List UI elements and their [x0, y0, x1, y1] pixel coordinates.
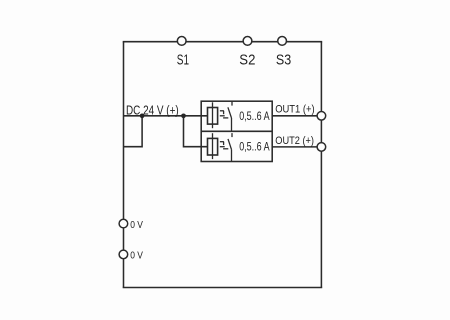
svg-text:OUT2 (+): OUT2 (+)	[275, 135, 314, 147]
svg-text:S2: S2	[239, 52, 255, 68]
wire OUT1 output	[272, 115, 317, 117]
wire bottom bus	[123, 287, 323, 289]
svg-text:0,5..6 A: 0,5..6 A	[239, 109, 270, 123]
wire jog from junction to left rail	[124, 116, 143, 147]
breaker module divider	[201, 130, 272, 132]
fuse F1 (channel 1)	[208, 102, 218, 128]
terminal OUT2 (+)	[317, 143, 326, 152]
breaker module box U1	[201, 101, 272, 161]
terminal S2	[243, 37, 252, 46]
junction at DC feed / channel 2 branch	[181, 113, 186, 118]
svg-text:0,5..6 A: 0,5..6 A	[239, 140, 270, 154]
wire left rail	[123, 42, 125, 288]
breaker contact Q2 (channel 2)	[220, 133, 232, 161]
terminal OUT1 (+)	[317, 112, 326, 121]
wire branch to channel 2	[184, 116, 208, 147]
terminal 0 V (upper)	[119, 219, 128, 228]
svg-text:DC 24 V (+): DC 24 V (+)	[126, 102, 179, 117]
wire DC 24 V feed	[124, 115, 208, 117]
fuse F2 (channel 2)	[208, 133, 218, 159]
svg-text:0 V: 0 V	[130, 251, 143, 262]
terminal S1	[177, 37, 186, 46]
terminal S3	[278, 37, 287, 46]
svg-text:S1: S1	[177, 53, 189, 69]
svg-text:OUT1 (+): OUT1 (+)	[275, 103, 315, 115]
breaker contact Q1 (channel 1)	[220, 102, 232, 131]
svg-text:0 V: 0 V	[130, 220, 143, 231]
terminal 0 V (lower)	[119, 250, 128, 259]
wire top bus (S1-S3 loop)	[123, 41, 323, 43]
svg-text:S3: S3	[276, 52, 291, 68]
wire right rail	[320, 42, 322, 288]
wire OUT2 output	[272, 146, 317, 148]
junction at DC feed / jog	[140, 113, 145, 118]
